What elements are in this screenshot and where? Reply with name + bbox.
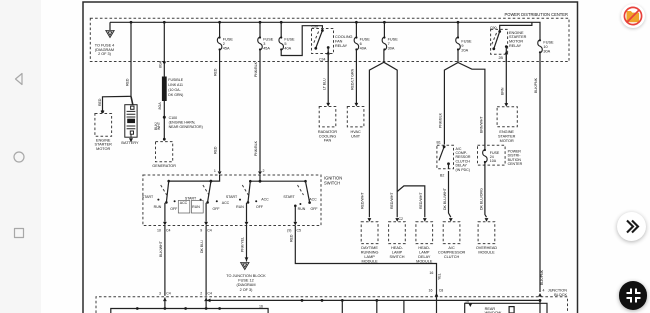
generator dashed box	[156, 142, 173, 162]
svg-text:CENTER: CENTER	[508, 162, 523, 166]
svg-text:SWITCH: SWITCH	[324, 180, 340, 185]
switch S4 ignition position 4	[283, 180, 318, 222]
svg-text:RUN: RUN	[192, 205, 200, 209]
svg-text:LAMP: LAMP	[392, 251, 403, 255]
svg-text:FUSE: FUSE	[360, 38, 371, 42]
svg-text:RED: RED	[214, 146, 218, 154]
svg-text:ENGINE: ENGINE	[499, 130, 514, 134]
svg-text:(DIAGRAM: (DIAGRAM	[237, 283, 256, 287]
switch S3 ignition position 3	[226, 180, 269, 222]
wire RED/LT GRN to HVAC	[355, 50, 357, 103]
svg-text:45A: 45A	[263, 47, 270, 51]
svg-text:6: 6	[360, 42, 362, 46]
svg-text:BLK/PNK: BLK/PNK	[540, 269, 544, 285]
svg-text:RED: RED	[126, 78, 130, 86]
svg-text:COOLING: COOLING	[335, 35, 353, 39]
svg-text:START: START	[185, 196, 197, 200]
svg-text:16: 16	[429, 289, 433, 293]
svg-text:DELAY: DELAY	[418, 255, 431, 259]
relay K1 cooling fan relay	[312, 25, 353, 62]
svg-text:20A: 20A	[461, 49, 468, 53]
svg-text:C4: C4	[207, 229, 212, 233]
svg-text:B1: B1	[437, 141, 441, 145]
svg-text:MODULE: MODULE	[416, 260, 433, 264]
relay K2 a/c compressor clutch delay	[437, 141, 471, 178]
svg-text:LINK A11: LINK A11	[168, 83, 183, 87]
wire to engine starter motor	[103, 96, 132, 111]
svg-text:GENERATOR: GENERATOR	[152, 164, 176, 168]
svg-text:BRN/WHT: BRN/WHT	[480, 116, 484, 133]
svg-text:B2: B2	[440, 174, 444, 178]
top bus wire	[110, 22, 540, 40]
wire BLK/WHT ignition run output	[164, 226, 166, 296]
svg-text:RUN: RUN	[154, 205, 162, 209]
svg-text:BATTERY: BATTERY	[121, 141, 139, 145]
node C100 splice	[163, 116, 166, 119]
a/c compressor clutch dashed box	[443, 222, 460, 244]
overhead module dashed box	[478, 222, 495, 244]
headlamp switch dashed box	[389, 222, 406, 244]
svg-text:A/C: A/C	[448, 246, 455, 250]
svg-text:RUN: RUN	[236, 205, 244, 209]
svg-text:(9): (9)	[287, 229, 291, 233]
wire LT BLU to radiator fan	[326, 51, 330, 55]
svg-text:LAMP: LAMP	[419, 251, 430, 255]
fusible link A11	[163, 61, 166, 64]
svg-text:OFF: OFF	[310, 207, 318, 211]
wire battery positive diagonal	[131, 96, 133, 104]
svg-text:2 OF 3): 2 OF 3)	[98, 52, 112, 56]
svg-text:HEAD-: HEAD-	[418, 246, 431, 250]
svg-text:ACC: ACC	[222, 201, 230, 205]
outer page border of diagram	[83, 2, 578, 313]
svg-text:LT BLU: LT BLU	[322, 78, 326, 90]
svg-text:RED/LT GRN: RED/LT GRN	[351, 68, 355, 90]
svg-text:WHT: WHT	[157, 121, 161, 130]
node bus junctions	[130, 21, 133, 24]
svg-text:PNK/YEL: PNK/YEL	[241, 237, 245, 252]
collapse/compress floating action button	[619, 281, 648, 310]
junction block bus 1	[111, 309, 268, 313]
fuse F9 20A	[457, 22, 459, 37]
svg-text:NEAR GENERATOR): NEAR GENERATOR)	[169, 125, 203, 129]
wire YEL ignition acc output	[295, 226, 436, 313]
svg-text:C4: C4	[166, 229, 171, 233]
svg-text:2B: 2B	[499, 56, 504, 60]
svg-text:FAN: FAN	[324, 139, 332, 143]
android navigation bar strip	[0, 0, 41, 313]
wire DK BLU	[205, 226, 207, 296]
junction block bus 2	[211, 300, 541, 313]
svg-text:ENGINE: ENGINE	[509, 31, 524, 35]
svg-text:FAN: FAN	[335, 39, 343, 43]
svg-text:2 OF 3): 2 OF 3)	[240, 288, 254, 292]
fuse F10 30A	[538, 39, 543, 53]
svg-text:C34: C34	[319, 58, 326, 62]
svg-text:1: 1	[214, 169, 216, 173]
wire ignition feed line 2	[259, 175, 261, 181]
svg-text:2: 2	[223, 42, 225, 46]
svg-text:MODULE: MODULE	[478, 251, 495, 255]
svg-text:C2: C2	[399, 217, 404, 221]
svg-text:RED: RED	[98, 98, 102, 106]
fuse F7 30A	[383, 22, 385, 37]
wire split below fuse 9	[444, 50, 458, 145]
svg-text:C8: C8	[439, 289, 444, 293]
wire branch to headlamp delay module	[397, 186, 425, 217]
svg-text:(IN PDC): (IN PDC)	[456, 168, 470, 172]
svg-text:40A: 40A	[284, 47, 291, 51]
svg-text:4: 4	[543, 289, 545, 293]
svg-text:ACC: ACC	[180, 201, 188, 205]
wire fusible link feed	[163, 22, 165, 88]
off-page connector TO FUSE 4	[109, 22, 111, 30]
svg-text:8GA: 8GA	[158, 102, 162, 110]
svg-text:BLK/WHT: BLK/WHT	[159, 240, 163, 257]
fuse F24 10A in PDC	[478, 145, 523, 166]
rear window defogger box	[465, 303, 547, 313]
connector arrows ignition outputs	[163, 222, 167, 226]
svg-text:COMPRESSOR: COMPRESSOR	[438, 251, 466, 255]
svg-text:FUSE: FUSE	[263, 38, 274, 42]
svg-text:9: 9	[461, 44, 463, 48]
fuse F5 40A	[280, 22, 282, 37]
svg-text:5: 5	[284, 42, 286, 46]
svg-text:ACC: ACC	[309, 198, 317, 202]
svg-text:3: 3	[159, 292, 161, 296]
wire PNK/BLK ignition feed 2	[259, 50, 261, 171]
svg-text:16: 16	[259, 305, 263, 309]
svg-text:C4: C4	[207, 292, 212, 296]
svg-text:OFF: OFF	[212, 207, 220, 211]
svg-text:OVERHEAD: OVERHEAD	[476, 246, 498, 250]
svg-text:START: START	[142, 195, 154, 199]
svg-text:16: 16	[429, 271, 433, 275]
wire BLK/PNK long run	[539, 53, 541, 292]
svg-text:RED: RED	[289, 234, 293, 242]
wire fuse5 to cooling fan relay	[281, 26, 322, 56]
svg-text:PNK/BLK: PNK/BLK	[438, 112, 442, 128]
fuse F2 45A	[219, 22, 221, 37]
switch S1 ignition position 1	[142, 180, 188, 222]
svg-text:UNIT: UNIT	[351, 134, 361, 138]
svg-text:3: 3	[263, 42, 265, 46]
svg-text:DK BLU: DK BLU	[200, 240, 204, 253]
node starter junction	[101, 110, 104, 113]
engine starter motor (left) dashed box	[95, 114, 112, 137]
wire BRN to engine starter motor	[505, 55, 507, 104]
svg-text:10A: 10A	[490, 159, 497, 163]
svg-text:8GA: 8GA	[159, 60, 163, 68]
svg-text:OFF: OFF	[170, 207, 178, 211]
svg-text:YEL: YEL	[437, 273, 441, 280]
svg-text:DK BLU/WHT: DK BLU/WHT	[443, 187, 447, 210]
svg-text:RED/WHT: RED/WHT	[390, 192, 394, 209]
svg-text:(10 GA-: (10 GA-	[168, 88, 181, 92]
headlamp delay module dashed box	[416, 222, 433, 244]
svg-text:C100: C100	[169, 116, 178, 120]
svg-text:PNK/BLK: PNK/BLK	[254, 61, 258, 77]
svg-text:BLK/PNK: BLK/PNK	[534, 77, 538, 93]
svg-text:DAYTIME: DAYTIME	[361, 246, 378, 250]
wire DK BLU/ORG to overhead module	[485, 163, 487, 218]
svg-text:10: 10	[543, 45, 547, 49]
svg-text:TO JUNCTION BLOCK: TO JUNCTION BLOCK	[226, 274, 266, 278]
svg-text:FUSE: FUSE	[284, 38, 295, 42]
svg-text:RED/WHT: RED/WHT	[419, 192, 423, 209]
svg-text:RED/WHT: RED/WHT	[361, 192, 365, 209]
relay K3 engine starter motor relay	[490, 22, 532, 61]
svg-text:16: 16	[465, 300, 469, 304]
svg-text:FUSE 12: FUSE 12	[238, 279, 253, 283]
android nav home button	[11, 149, 27, 165]
engine starter motor (right) dashed box	[497, 107, 517, 127]
wire RED battery feed	[130, 22, 132, 96]
expand panel button	[617, 212, 646, 241]
HVAC unit dashed box	[347, 107, 364, 127]
svg-text:OFF: OFF	[256, 205, 264, 209]
wire PNK to junction block fuse 12	[246, 226, 248, 262]
ignition switch dashed box	[143, 175, 321, 226]
svg-text:BLOCK: BLOCK	[554, 293, 567, 297]
svg-text:C5: C5	[297, 229, 302, 233]
svg-text:BRN: BRN	[501, 87, 505, 95]
fuse F3 45A	[259, 22, 261, 37]
svg-text:DK BLU/ORG: DK BLU/ORG	[480, 188, 484, 210]
svg-text:45A: 45A	[223, 47, 230, 51]
svg-text:40A: 40A	[360, 47, 367, 51]
svg-text:C90: C90	[312, 25, 319, 29]
connector arrows feeds into ignition switch	[218, 171, 222, 175]
svg-text:MOTOR: MOTOR	[500, 139, 514, 143]
wire below fusible link	[163, 101, 165, 139]
svg-text:LAMP: LAMP	[364, 255, 375, 259]
svg-text:SWITCH: SWITCH	[390, 255, 405, 259]
wire ignition feed line 1	[169, 175, 220, 181]
svg-text:FUSE: FUSE	[461, 40, 472, 44]
svg-text:HEAD-: HEAD-	[391, 246, 404, 250]
svg-text:ACC: ACC	[261, 198, 269, 202]
svg-text:PNK/BLK: PNK/BLK	[254, 140, 258, 156]
jumper bars ignition	[178, 201, 190, 214]
no-folder floating badge	[621, 4, 645, 28]
svg-text:RED: RED	[214, 68, 218, 76]
connector arrows into junction block	[163, 298, 167, 302]
svg-text:30A: 30A	[543, 50, 550, 54]
svg-text:FUSE: FUSE	[388, 38, 399, 42]
android nav back button	[11, 71, 27, 87]
svg-text:MOTOR: MOTOR	[509, 40, 523, 44]
svg-text:DK GRN): DK GRN)	[168, 93, 183, 97]
off-page connector TO JUNCTION BLOCK	[241, 263, 249, 270]
android nav recents button	[11, 225, 27, 241]
svg-text:START: START	[283, 195, 295, 199]
svg-text:JUNCTION: JUNCTION	[548, 288, 567, 292]
fuse F6 40A	[355, 22, 357, 37]
svg-text:CLUTCH: CLUTCH	[444, 255, 460, 259]
svg-text:RELAY: RELAY	[335, 44, 348, 48]
wire DK BLU/WHT to a/c clutch	[449, 171, 451, 217]
battery B1	[121, 105, 139, 145]
svg-text:FUSIBLE: FUSIBLE	[168, 78, 183, 82]
wire split below fuse 7	[369, 50, 384, 217]
svg-text:RELAY: RELAY	[509, 44, 522, 48]
power distribution center dashed box	[90, 18, 569, 61]
svg-text:2: 2	[200, 292, 202, 296]
junction block dashed boundary	[96, 297, 568, 313]
svg-text:10: 10	[157, 229, 161, 233]
svg-text:FUSE: FUSE	[223, 38, 234, 42]
svg-text:START: START	[226, 195, 238, 199]
svg-text:STARTER: STARTER	[498, 135, 516, 139]
svg-text:7: 7	[388, 42, 390, 46]
svg-text:POWER DISTRIBUTION CENTER: POWER DISTRIBUTION CENTER	[505, 12, 568, 17]
svg-text:30A: 30A	[388, 47, 395, 51]
svg-text:MODULE: MODULE	[361, 260, 378, 264]
svg-text:C4: C4	[166, 292, 171, 296]
svg-text:2: 2	[263, 169, 265, 173]
svg-text:RUN: RUN	[298, 207, 306, 211]
daytime running lamp module dashed box	[361, 222, 378, 244]
wire RED ignition feed 1	[219, 50, 221, 171]
svg-text:(ENGINE HARN,: (ENGINE HARN,	[169, 120, 196, 124]
svg-text:9: 9	[200, 229, 202, 233]
svg-text:RUNNING: RUNNING	[361, 251, 379, 255]
svg-text:STARTER: STARTER	[509, 35, 527, 39]
switch S2 ignition position 2	[192, 180, 230, 222]
radiator cooling fan dashed box	[319, 107, 336, 127]
svg-text:FUSE: FUSE	[543, 41, 554, 45]
module boxes connector arrows	[368, 218, 372, 222]
svg-text:MOTOR: MOTOR	[96, 147, 110, 151]
